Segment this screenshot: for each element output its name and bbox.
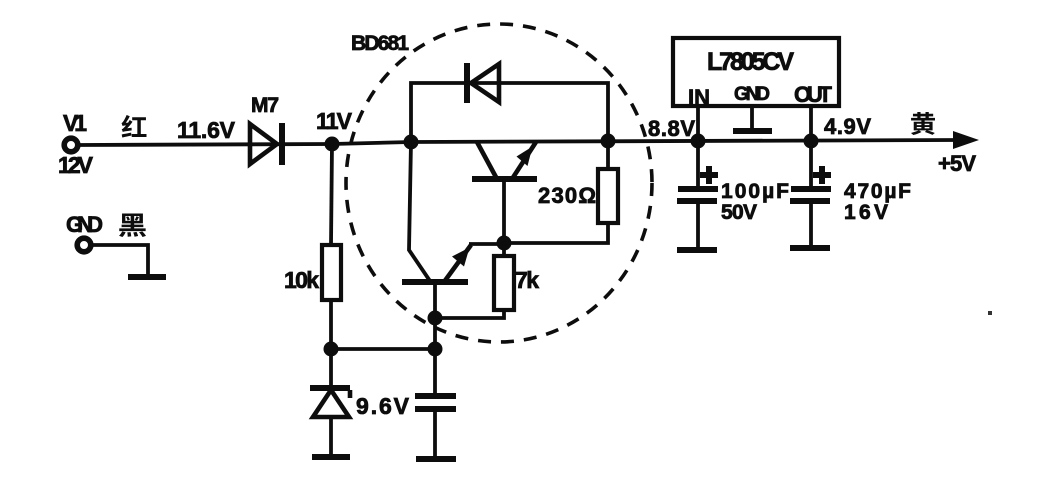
label black wire hei: [119, 214, 146, 237]
node 230 ohm top junction: [601, 134, 616, 149]
node OUT junction: [804, 134, 819, 149]
terminal GND: [66, 212, 103, 252]
svg-text:11V: 11V: [316, 108, 353, 134]
capacitor C3 470µF: [790, 141, 911, 247]
svg-text:BD681: BD681: [351, 32, 409, 55]
resistor 10k: [284, 144, 341, 349]
diode internal (collector-emitter): [467, 63, 499, 103]
pin OUT wire: [809, 106, 813, 141]
capacitor C1 (base filter): [415, 396, 456, 458]
ground (C2): [677, 247, 717, 253]
svg-text:M7: M7: [251, 94, 279, 117]
ground (input): [128, 274, 166, 280]
ground (capacitor C1): [416, 456, 456, 462]
svg-text:10k: 10k: [284, 267, 319, 293]
label yellow wire 黄: [911, 112, 935, 135]
node IN junction: [691, 134, 706, 149]
capacitor C2 100µF: [677, 141, 789, 249]
svg-text:470µF: 470µF: [844, 180, 911, 203]
svg-text:16V: 16V: [844, 201, 888, 224]
wire Q2 emitter to junction: [469, 242, 504, 246]
ground (zener): [312, 454, 350, 460]
ground (regulator): [733, 128, 772, 134]
node 7k bottom junction: [428, 311, 443, 326]
terminal V1: [58, 110, 94, 178]
label red wire 红: [122, 115, 147, 138]
svg-text:9.6V: 9.6V: [356, 393, 410, 419]
node 10k bottom junction: [324, 342, 339, 357]
svg-text:L7805CV: L7805CV: [707, 48, 794, 76]
wire GND terminal to ground: [92, 245, 148, 280]
svg-text:GND: GND: [66, 212, 103, 237]
wire diode branch up-left: [411, 83, 608, 142]
scan speck: [988, 311, 992, 315]
svg-text:GND: GND: [734, 84, 770, 105]
wire Q2 base drop: [433, 282, 437, 395]
svg-text:8.8V: 8.8V: [648, 116, 695, 141]
svg-text:OUT: OUT: [794, 82, 833, 107]
resistor 230Ω: [504, 141, 618, 243]
svg-text:V1: V1: [63, 110, 87, 136]
svg-text:7k: 7k: [515, 267, 539, 293]
regulator U1 L7805CV: [673, 38, 839, 110]
pin IN wire: [696, 106, 700, 141]
svg-text:100µF: 100µF: [721, 180, 789, 203]
svg-text:50V: 50V: [721, 201, 757, 224]
ground (C3): [790, 245, 830, 251]
svg-text:11.6V: 11.6V: [177, 117, 236, 143]
wire base net to 10k: [331, 347, 435, 351]
resistor 7k: [435, 243, 539, 318]
transistor Q2 (driver): [402, 245, 471, 282]
dashed circle BD681 package: [346, 24, 652, 342]
node collector junction: [404, 135, 419, 150]
diode M7: [250, 94, 282, 165]
arrow output +5V: [953, 131, 979, 149]
svg-text:230Ω: 230Ω: [538, 183, 596, 208]
svg-text:+5V: +5V: [938, 151, 976, 176]
pin GND wire: [750, 106, 754, 129]
svg-text:12V: 12V: [58, 152, 94, 178]
node 11V junction: [325, 137, 340, 152]
zener diode 9.6V: [310, 349, 410, 455]
node base net junction: [428, 342, 443, 357]
transistor Q1 (output darlington): [472, 142, 537, 243]
node Q1 base / 7k top junction: [497, 236, 512, 251]
wire Q2 collector drop: [409, 142, 430, 281]
wire main horizontal from V1 to arrow: [79, 140, 958, 145]
svg-text:4.9V: 4.9V: [824, 114, 871, 139]
